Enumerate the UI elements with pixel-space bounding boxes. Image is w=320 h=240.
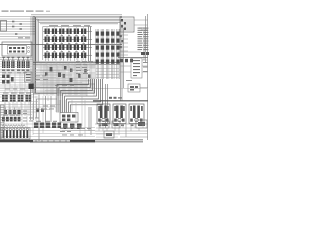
wire bundle west extension xyxy=(31,87,58,120)
junction box JB1 xyxy=(60,113,78,123)
component cluster right mid xyxy=(118,52,149,62)
label text mid rows xyxy=(5,76,74,90)
small components mid-left2 xyxy=(36,109,44,113)
coil spring row xyxy=(2,125,25,127)
component row bottom-center xyxy=(33,121,61,128)
controller box left xyxy=(2,42,32,56)
wire vertical center xyxy=(39,84,108,141)
wire lower web xyxy=(0,96,148,137)
relay row K1-K4 xyxy=(1,93,32,103)
solenoid row under JB1 xyxy=(62,124,95,131)
diode ticks on wires xyxy=(12,21,22,35)
small valve row left xyxy=(4,110,21,114)
wire bottom right xyxy=(95,124,148,137)
solenoid valve manifold rows xyxy=(43,27,92,63)
pilot valve caps xyxy=(2,57,29,60)
label text cluster right of manifold xyxy=(76,61,93,74)
wire web center extra xyxy=(0,61,95,96)
vertical bus left xyxy=(31,17,39,94)
wire links right panel xyxy=(118,20,148,88)
solenoid bank bottom-left xyxy=(1,128,30,139)
wire relay drops xyxy=(5,102,29,116)
connector CN2 xyxy=(120,17,134,32)
wire web mid extra2 xyxy=(0,62,95,97)
pump unit P1 xyxy=(50,66,73,82)
label text mid-left xyxy=(18,37,30,38)
terminal strip left edge xyxy=(0,105,4,140)
wire web center xyxy=(0,64,147,102)
ground bus bottom xyxy=(0,140,143,142)
label text center low xyxy=(23,106,91,136)
wire top bundle xyxy=(31,15,122,24)
sensor box left xyxy=(25,72,33,82)
label text right mid xyxy=(126,62,148,81)
connector CN1 xyxy=(1,21,7,32)
control valve CV2 xyxy=(113,104,126,126)
small boxes bottom-right xyxy=(100,120,147,138)
component cluster left mid xyxy=(2,75,14,84)
label text legend column xyxy=(138,28,149,50)
wire right edge xyxy=(121,14,148,140)
pilot valve group PV2 xyxy=(17,61,30,69)
bus right dark xyxy=(93,100,148,102)
wire web lower-left extra xyxy=(0,96,118,143)
label text above CV xyxy=(109,97,122,99)
wire verticals below valves xyxy=(96,124,148,136)
pilot valve group PV1 xyxy=(2,61,15,69)
junction block center-left xyxy=(29,84,34,90)
wire bundle N-W-S xyxy=(57,79,103,113)
wire manifold drops xyxy=(46,58,86,62)
title text xyxy=(2,11,51,12)
terminal strip TB1 xyxy=(2,115,21,122)
right mid panel xyxy=(128,58,142,92)
control valve CV1 xyxy=(97,104,110,126)
wire bus mid dark xyxy=(0,45,122,63)
wire left mid xyxy=(0,58,33,60)
label text right top xyxy=(139,28,147,31)
valve bank right columns xyxy=(96,29,120,79)
wire web mesh3 xyxy=(35,63,95,95)
control valve CV3 xyxy=(129,104,144,126)
pilot valve springs xyxy=(2,69,29,71)
diode ticks right wires xyxy=(120,35,124,48)
wire top-left fan xyxy=(0,17,35,40)
label text under pilot valves xyxy=(2,71,27,74)
label text above valve block xyxy=(49,25,90,26)
